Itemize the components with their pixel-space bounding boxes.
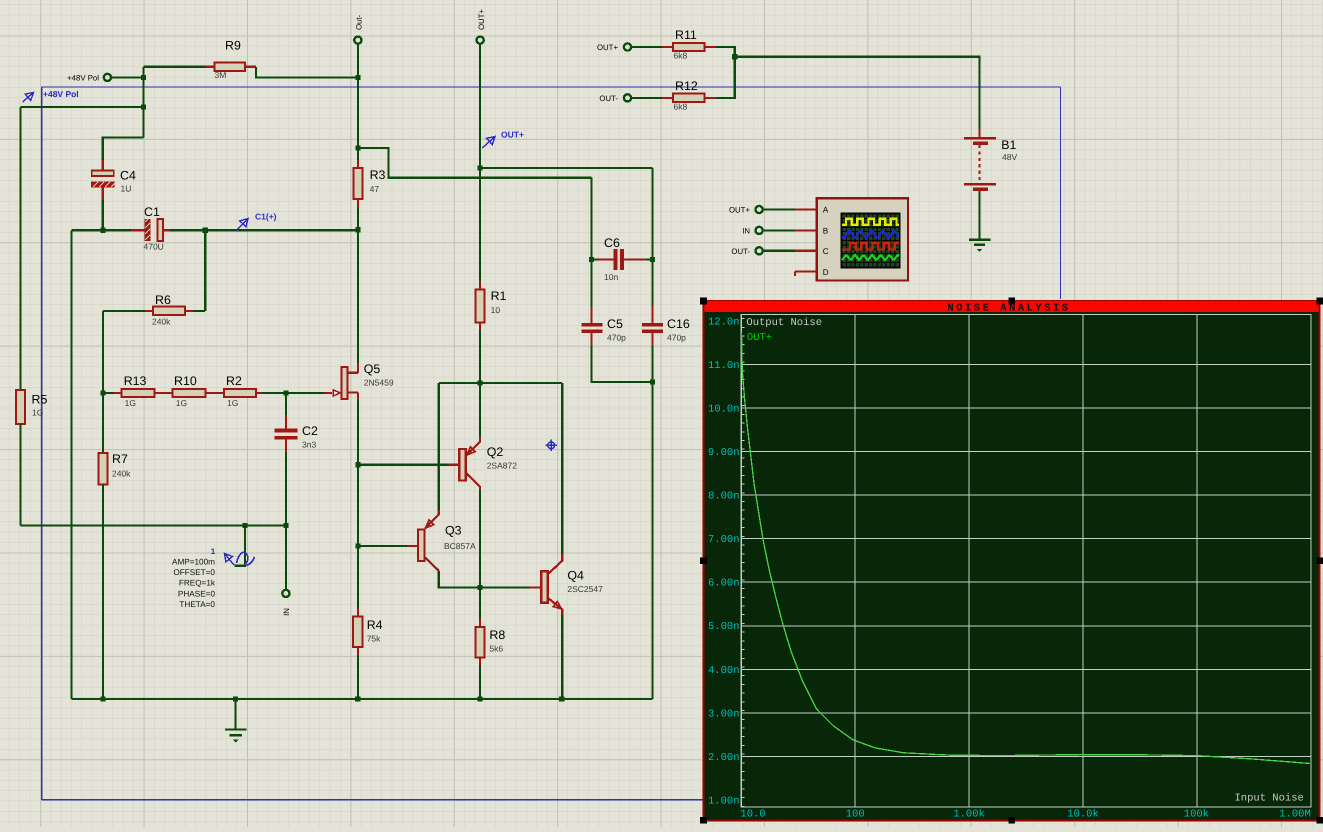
wire ground bus [71, 698, 652, 700]
graph window NOISE ANALYSIS [704, 301, 1320, 820]
svg-text:470p: 470p [667, 333, 686, 343]
junction R9/out rail [355, 75, 360, 80]
junction source [242, 523, 247, 528]
blue net wire right [1060, 87, 1062, 299]
svg-text:11.0n: 11.0n [708, 360, 740, 372]
wire R1 down to Q2 [479, 330, 481, 437]
graph curve OUT+ [742, 332, 1311, 764]
wire R6 right [193, 310, 205, 312]
svg-text:75k: 75k [367, 634, 381, 644]
svg-text:10.0k: 10.0k [1067, 809, 1099, 821]
terminal [282, 590, 289, 597]
wire C16 to bus [651, 346, 653, 699]
junction R4/bus [355, 697, 360, 702]
svg-text:47: 47 [370, 184, 380, 194]
wire Q3 base [358, 545, 407, 547]
svg-text:5k6: 5k6 [489, 644, 503, 654]
svg-text:Output Noise: Output Noise [746, 317, 822, 329]
lead R6 left [145, 310, 153, 312]
battery B1 [964, 137, 996, 140]
wire R11 to node [716, 47, 735, 57]
capacitor C1 polarized [145, 219, 151, 241]
junction C4/C1 [100, 228, 105, 233]
oscilloscope body [817, 198, 908, 280]
source V1 sine symbol [237, 552, 255, 565]
svg-text:48V: 48V [1002, 152, 1017, 162]
junction C2/IN [283, 523, 288, 528]
svg-text:IN: IN [742, 226, 750, 235]
lead R12 left [662, 97, 673, 99]
lead Q4 base [530, 586, 541, 588]
svg-text:C6: C6 [604, 236, 620, 250]
junction ground [233, 697, 238, 702]
wire vertical x143 [142, 67, 144, 138]
transistor Q2 2SA872 [459, 449, 466, 481]
junction B [141, 105, 146, 110]
resistor R3 [353, 168, 362, 199]
resistor R12 [673, 94, 705, 102]
svg-text:9.00n: 9.00n [708, 447, 740, 459]
lead R9 left [206, 66, 215, 68]
junction C6 right [650, 257, 655, 262]
svg-text:10: 10 [491, 305, 501, 315]
scope pin A [795, 208, 817, 210]
wire C4 to C1 row [102, 200, 104, 230]
wire x438 down [438, 383, 440, 510]
wire OUT- to R12 [632, 97, 663, 99]
lead C4 bottom [102, 188, 104, 201]
svg-text:R13: R13 [124, 374, 147, 388]
resistor R2 [224, 389, 256, 397]
svg-text:B: B [823, 227, 829, 236]
svg-text:+48V Pol: +48V Pol [43, 89, 79, 99]
lead R3 bottom [357, 199, 359, 207]
wire down to R6 [204, 230, 206, 311]
svg-text:3n3: 3n3 [302, 440, 316, 450]
junction Q4e/bus [559, 697, 564, 702]
lead C2 top [285, 415, 287, 429]
scope trace A yellow [842, 219, 899, 225]
capacitor C2 [275, 429, 298, 433]
wire left vertical to R5 [20, 107, 22, 390]
wire R6 left [103, 310, 145, 312]
svg-text:1: 1 [211, 547, 216, 556]
junction A [141, 75, 146, 80]
svg-text:10n: 10n [604, 272, 618, 282]
lead R3 top [357, 160, 359, 168]
terminal [624, 43, 631, 50]
wire C5 branch [590, 178, 592, 307]
svg-text:6k8: 6k8 [674, 102, 688, 112]
wire B1 to ground [978, 191, 980, 239]
svg-text:Q2: Q2 [487, 445, 504, 459]
lead R13-R10 [154, 392, 172, 394]
svg-text:OUT+: OUT+ [597, 43, 618, 52]
junction OUT+/wireA [478, 165, 483, 170]
resistor R4 [353, 617, 362, 648]
svg-text:R12: R12 [675, 79, 698, 93]
wire to R13 [103, 392, 114, 394]
capacitor C4 [92, 171, 114, 176]
svg-text:240k: 240k [112, 469, 131, 479]
wire C1 row left [71, 229, 136, 231]
svg-text:OUT-: OUT- [599, 94, 618, 103]
wire R3 to Q5 drain [357, 207, 359, 363]
svg-text:1.00n: 1.00n [708, 796, 740, 808]
svg-text:C4: C4 [120, 169, 136, 183]
wire to R8 [479, 587, 481, 618]
scope trace D green [842, 255, 899, 260]
blue net wire top [42, 86, 1061, 88]
svg-text:4.00n: 4.00n [708, 665, 740, 677]
wire R7 to ground bus [102, 485, 104, 699]
svg-text:Out-: Out- [355, 14, 364, 30]
junction Q2c/Q4b [478, 585, 483, 590]
svg-text:Input Noise: Input Noise [1234, 793, 1303, 805]
resistor R11 [673, 43, 705, 51]
lead R8 top [479, 619, 481, 628]
svg-text:OUT+: OUT+ [747, 332, 772, 344]
junction C1 row/rail [355, 227, 360, 232]
transistor Q5 2N5459 [357, 363, 359, 373]
svg-text:2SC2547: 2SC2547 [567, 584, 603, 594]
junction C1/R6 [203, 228, 208, 233]
scope screen [841, 213, 901, 269]
svg-text:R10: R10 [174, 374, 197, 388]
blue net wire left [41, 87, 43, 800]
lead C5 bottom [590, 333, 592, 346]
capacitor C16 [642, 323, 663, 327]
svg-text:C1(+): C1(+) [255, 212, 277, 222]
svg-text:R4: R4 [367, 618, 383, 632]
resistor R5 [16, 390, 25, 424]
graph plot frame [741, 315, 1311, 807]
svg-text:7.00n: 7.00n [708, 534, 740, 546]
resistor R8 [476, 627, 485, 657]
svg-text:C5: C5 [607, 317, 623, 331]
svg-text:1G: 1G [227, 398, 238, 408]
svg-text:R9: R9 [225, 39, 241, 53]
lead R1 bottom [479, 322, 481, 330]
wire to source pin [235, 525, 246, 565]
svg-text:470p: 470p [607, 333, 626, 343]
svg-text:240k: 240k [152, 317, 171, 327]
wire to C4 [103, 138, 144, 161]
net label C1(+) [237, 219, 249, 231]
wire to R7 [102, 393, 104, 453]
scope trace B blue [842, 231, 899, 238]
svg-text:R5: R5 [32, 393, 48, 407]
lead C6 right [624, 258, 646, 260]
svg-text:R8: R8 [489, 628, 505, 642]
wire OUT+ to R11 [632, 46, 663, 48]
svg-text:R3: R3 [370, 168, 386, 182]
wire left vertical x71 [70, 230, 72, 699]
svg-text:C2: C2 [302, 424, 318, 438]
svg-text:A: A [823, 206, 829, 215]
svg-text:100: 100 [846, 809, 865, 821]
wire C16 branch [651, 168, 653, 306]
svg-text:OFFSET=0: OFFSET=0 [173, 568, 215, 577]
lead R12 right [705, 97, 716, 99]
net label OUT+ [482, 137, 495, 149]
svg-text:470U: 470U [144, 242, 164, 252]
resistor R6 [153, 307, 185, 315]
junction R3 tap [355, 145, 360, 150]
transistor Q4 2SC2547 [541, 571, 548, 603]
junction C16 bottom [650, 379, 655, 384]
scope pin B [795, 229, 817, 231]
wire Q2 box top [439, 382, 562, 384]
lead C5 top [590, 307, 592, 323]
junction R13 row [100, 390, 105, 395]
lead R11 left [662, 46, 673, 48]
junction R7/bus [100, 697, 105, 702]
svg-text:1G: 1G [32, 408, 43, 418]
svg-text:R11: R11 [675, 28, 697, 42]
graph gridlines [741, 315, 1311, 807]
svg-text:12.0n: 12.0n [708, 316, 740, 328]
svg-text:2N5459: 2N5459 [364, 378, 394, 388]
blue net wire bottom [42, 799, 704, 801]
svg-text:D: D [823, 268, 829, 277]
terminal [477, 37, 484, 44]
svg-text:OUT+: OUT+ [477, 9, 486, 30]
svg-text:10.0: 10.0 [740, 809, 765, 821]
svg-text:Q3: Q3 [445, 524, 462, 538]
lead C4 top [102, 160, 104, 171]
wire lower bus y525 [21, 524, 286, 526]
scope trace C red [842, 243, 899, 249]
resistor R13 [122, 389, 155, 397]
svg-text:R7: R7 [112, 452, 128, 466]
wire R9 left [143, 66, 206, 68]
lead R2 right [256, 392, 262, 394]
scope pin D [795, 271, 817, 273]
svg-text:1.00M: 1.00M [1279, 809, 1311, 821]
svg-text:R1: R1 [491, 289, 507, 303]
svg-text:FREQ=1k: FREQ=1k [179, 579, 216, 588]
svg-text:1G: 1G [125, 398, 136, 408]
wire node to battery [735, 57, 980, 129]
terminal [756, 206, 763, 213]
terminal [104, 74, 111, 81]
lead R11 right [705, 46, 716, 48]
wire C2 top [285, 393, 287, 415]
svg-text:1G: 1G [176, 398, 187, 408]
svg-text:OUT-: OUT- [731, 247, 750, 256]
svg-text:100k: 100k [1184, 809, 1209, 821]
terminal [354, 37, 361, 44]
lead R4 bottom [357, 647, 359, 655]
svg-text:1U: 1U [121, 184, 132, 194]
junction Q2 box top [478, 380, 483, 385]
graph title bar [705, 301, 1319, 312]
lead R6 right [185, 310, 193, 312]
wire Q2 collector down [479, 490, 481, 587]
svg-text:R2: R2 [226, 374, 242, 388]
wire Q4 emitter to bus [561, 615, 563, 699]
lead C1 right [163, 229, 170, 231]
junction R11/R12 [732, 54, 737, 59]
svg-text:THETA=0: THETA=0 [179, 600, 215, 609]
capacitor C5 [581, 323, 602, 327]
wire R8 to bus [479, 665, 481, 699]
lead R8 bottom [479, 658, 481, 666]
terminal [624, 94, 631, 101]
svg-text:Q5: Q5 [364, 362, 381, 376]
svg-text:IN: IN [282, 608, 291, 616]
wire Out- rail top [357, 44, 359, 160]
capacitor C6 [614, 249, 618, 270]
graph y ticks [741, 319, 744, 807]
wire Q2 base [358, 464, 449, 466]
scope pin D hook [794, 272, 796, 276]
junction Q2 base tap [355, 462, 360, 467]
svg-text:OUT+: OUT+ [501, 130, 524, 140]
svg-text:8.00n: 8.00n [708, 491, 740, 503]
svg-text:C16: C16 [667, 317, 690, 331]
svg-text:5.00n: 5.00n [708, 621, 740, 633]
lead R4 top [357, 608, 359, 617]
junction Q3 base tap [355, 543, 360, 548]
lead C1 left [131, 229, 145, 231]
cursor marker [548, 442, 555, 449]
resistor R10 [172, 389, 205, 397]
junction C6 left [589, 257, 594, 262]
svg-text:6k8: 6k8 [674, 51, 688, 61]
svg-text:2SA872: 2SA872 [487, 461, 518, 471]
scope pin C [795, 250, 817, 252]
wire tap to C5 branch [358, 148, 592, 178]
svg-text:C1: C1 [144, 205, 160, 219]
svg-text:BC857A: BC857A [444, 541, 476, 551]
wire C5 bottom [592, 346, 653, 382]
wire to IN terminal [285, 525, 287, 589]
wire Q3 collector to Q4 base [439, 571, 530, 588]
svg-text:+48V Pol: +48V Pol [67, 74, 99, 83]
svg-text:B1: B1 [1001, 138, 1016, 152]
terminal [756, 227, 763, 234]
wire x562 down [561, 383, 563, 554]
svg-text:OUT+: OUT+ [729, 206, 750, 215]
net label +48V Pol [23, 93, 34, 103]
lead R9 right [245, 66, 256, 68]
svg-text:1.00k: 1.00k [953, 809, 985, 821]
wire terminal to node [111, 76, 143, 78]
svg-text:6.00n: 6.00n [708, 578, 740, 590]
ground symbol [235, 699, 237, 729]
junction R8/bus [478, 697, 483, 702]
svg-text:PHASE=0: PHASE=0 [178, 589, 216, 598]
svg-text:AMP=100m: AMP=100m [172, 558, 215, 567]
resistor R1 [476, 290, 485, 323]
wire R9 to Out- rail [256, 67, 358, 78]
wire A to C16 branch [480, 167, 652, 169]
lead C16 bottom [651, 333, 653, 346]
resistor R7 [98, 453, 107, 485]
wire C1 to rail [170, 229, 358, 231]
svg-text:R6: R6 [155, 293, 171, 307]
svg-text:2.00n: 2.00n [708, 752, 740, 764]
lead R1 top [479, 281, 481, 290]
wire left branch [21, 106, 144, 108]
wire R4 to bus [357, 655, 359, 699]
lead R10-R2 [206, 392, 224, 394]
wire OUT+ rail [479, 44, 481, 281]
lead C6 left [598, 258, 614, 260]
terminal [756, 247, 763, 254]
ground battery [969, 238, 990, 240]
lead C2 bottom [285, 440, 287, 452]
selection handles [700, 298, 707, 305]
wire C2 to lower bus [285, 452, 287, 525]
svg-text:3M: 3M [215, 70, 227, 80]
wire R2 to Q5 gate [262, 392, 324, 394]
wire Q5 source down [357, 400, 359, 608]
svg-text:3.00n: 3.00n [708, 708, 740, 720]
junction C2 top [283, 390, 288, 395]
transistor Q3 BC857A [418, 530, 425, 562]
lead C16 top [651, 306, 653, 323]
svg-text:C: C [823, 247, 829, 256]
resistor R9 [215, 63, 246, 71]
lead R13 left [114, 392, 122, 394]
wire R5 to lower bus [20, 424, 22, 525]
lead B1 top [978, 128, 980, 137]
svg-text:Q4: Q4 [567, 569, 584, 583]
wire R12 to node [716, 57, 735, 98]
wire R6 to R13 row [102, 311, 104, 393]
svg-text:10.0n: 10.0n [708, 404, 740, 416]
